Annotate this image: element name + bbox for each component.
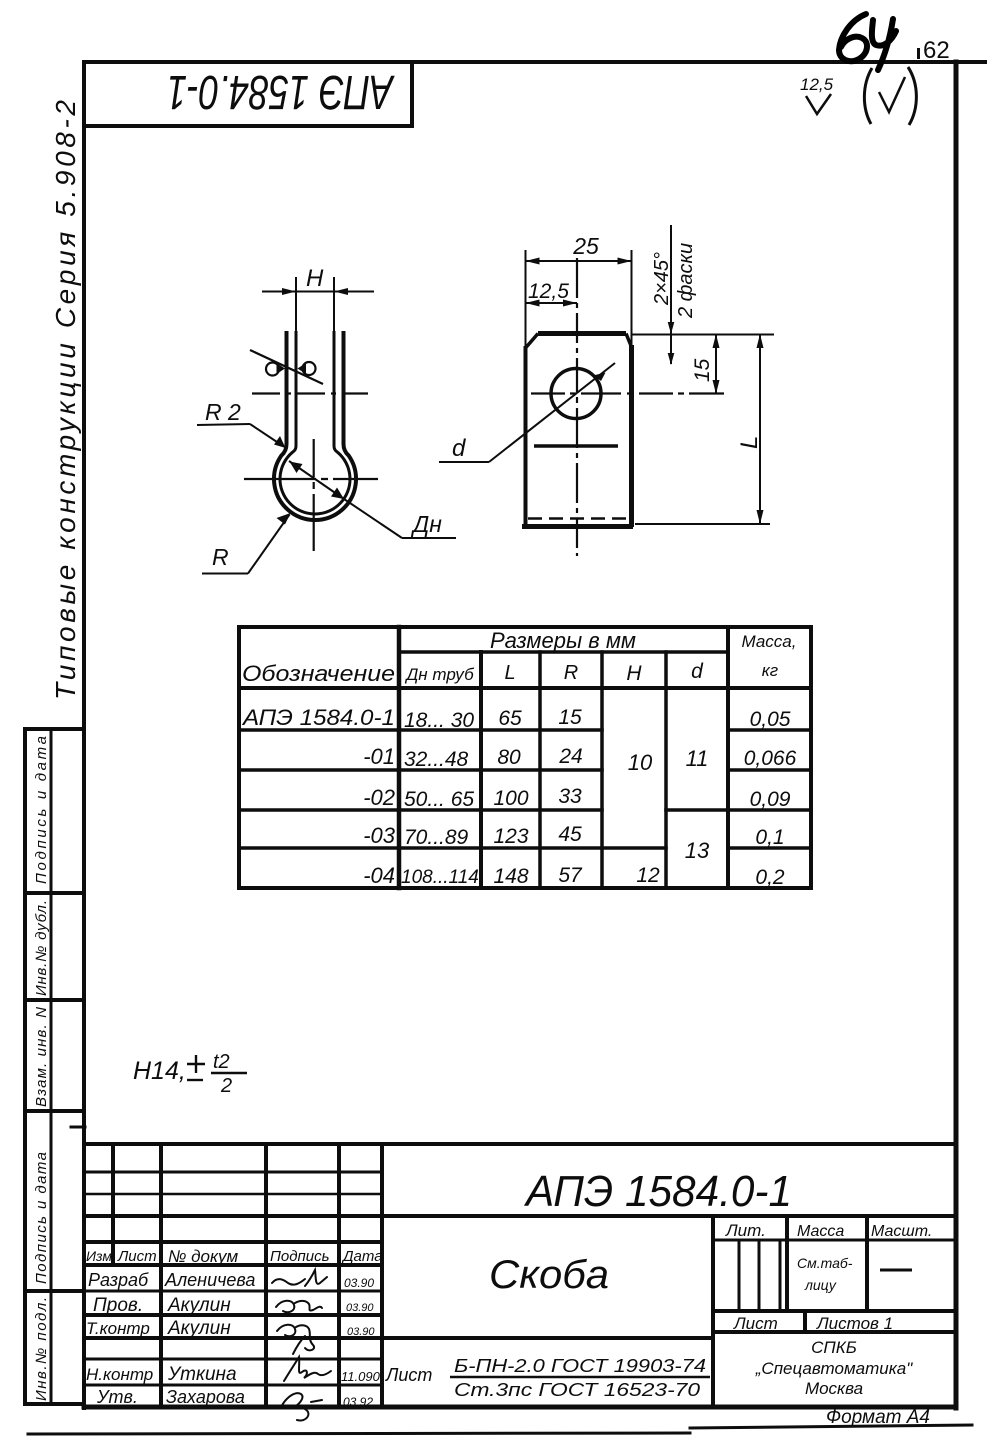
svg-text:148: 148 — [493, 865, 528, 888]
hidden bend line dashed — [528, 517, 630, 520]
dates in Data column — [341, 1276, 381, 1409]
svg-text:32...48: 32...48 — [404, 748, 469, 771]
svg-text:АПЭ 1584.0-1: АПЭ 1584.0-1 — [523, 1167, 792, 1216]
svg-text:11: 11 — [686, 746, 709, 771]
svg-text:Н14,: Н14, — [133, 1057, 186, 1085]
page number 62 — [917, 37, 950, 64]
loop vertical center line — [313, 439, 315, 551]
svg-text:15: 15 — [691, 358, 714, 382]
svg-text:R: R — [212, 544, 229, 570]
svg-text:Типовые конструкции Серия: Типовые конструкции Серия 5.908-2 — [50, 100, 81, 700]
rod diameter callout with circles — [250, 350, 323, 384]
sidebar cells — [23, 729, 27, 1404]
svg-text:R 2: R 2 — [205, 399, 241, 425]
svg-text:Пров.: Пров. — [93, 1295, 143, 1316]
svg-text:лицу: лицу — [804, 1277, 837, 1293]
svg-text:d: d — [452, 435, 466, 462]
frame bottom — [84, 1405, 956, 1410]
svg-text:АПЭ 1584.0-1: АПЭ 1584.0-1 — [241, 705, 395, 730]
svg-text:0,1: 0,1 — [755, 826, 784, 849]
leg center line — [252, 392, 368, 394]
svg-text:62: 62 — [923, 37, 950, 64]
svg-text:d: d — [691, 660, 704, 683]
plate outline — [522, 334, 633, 528]
svg-text:Масшт.: Масшт. — [871, 1223, 932, 1240]
svg-text:Взам. инв. N: Взам. инв. N — [33, 1007, 50, 1107]
svg-text:0,09: 0,09 — [750, 788, 791, 811]
frame left — [82, 62, 86, 1408]
svg-text:Лист: Лист — [117, 1248, 157, 1265]
svg-text:100: 100 — [493, 787, 528, 810]
svg-text:Размеры в мм: Размеры в мм — [490, 628, 636, 653]
top extension line — [632, 334, 774, 336]
svg-text:Подпись и дата: Подпись и дата — [33, 1152, 50, 1284]
hole horizontal center line — [531, 392, 724, 394]
svg-text:Акулин: Акулин — [167, 1318, 231, 1339]
frame tick mark — [71, 1126, 85, 1129]
right side cells — [711, 1216, 715, 1407]
svg-text:2 фаски: 2 фаски — [675, 243, 697, 319]
svg-text:L: L — [504, 662, 515, 684]
frame right — [954, 62, 959, 1408]
svg-text:24: 24 — [558, 745, 582, 768]
svg-text:Н.контр: Н.контр — [86, 1365, 153, 1384]
svg-text:-04: -04 — [363, 863, 395, 888]
svg-text:2: 2 — [220, 1075, 232, 1097]
svg-text:Утв.: Утв. — [96, 1387, 138, 1407]
svg-text:25: 25 — [572, 233, 599, 259]
svg-text:Масса: Масса — [797, 1223, 844, 1240]
svg-text:12,5: 12,5 — [800, 75, 834, 94]
svg-text:Захарова: Захарова — [166, 1387, 245, 1407]
svg-text:Подпись и дата: Подпись и дата — [33, 736, 50, 884]
svg-text:Акулин: Акулин — [167, 1295, 231, 1316]
svg-text:Уткина: Уткина — [167, 1364, 237, 1385]
loop horizontal center line — [244, 478, 378, 480]
bottom scan edge — [28, 1433, 690, 1434]
svg-text:50... 65: 50... 65 — [404, 788, 474, 811]
bend mark line — [534, 444, 618, 448]
page number 64 handwritten — [839, 14, 896, 70]
roughness mark 12,5 — [800, 75, 834, 114]
svg-text:„Спецавтоматика": „Спецавтоматика" — [755, 1359, 913, 1378]
tolerance note H14 — [133, 1051, 232, 1097]
title block grid — [84, 1144, 956, 1407]
hole vertical center line — [576, 258, 578, 556]
svg-text:Дн: Дн — [410, 511, 442, 537]
svg-text:12,5: 12,5 — [528, 280, 569, 303]
svg-text:-02: -02 — [363, 785, 395, 810]
dimension L — [759, 334, 761, 524]
title block text — [86, 1167, 932, 1428]
svg-text:03.90: 03.90 — [346, 1302, 374, 1314]
svg-text:57: 57 — [558, 864, 583, 887]
svg-text:Б-ПН-2.0 ГОСТ 19903-74: Б-ПН-2.0 ГОСТ 19903-74 — [454, 1356, 706, 1376]
svg-text:L: L — [736, 436, 763, 449]
svg-text:СПКБ: СПКБ — [811, 1338, 857, 1357]
roughness mark in parentheses — [864, 67, 916, 125]
svg-text:2×45°: 2×45° — [651, 252, 673, 306]
vertical dividers, left columns — [111, 1144, 115, 1265]
svg-text:11.090: 11.090 — [341, 1369, 381, 1384]
svg-text:Подпись: Подпись — [270, 1248, 330, 1265]
svg-text:Инв.№ дубл.: Инв.№ дубл. — [33, 900, 50, 996]
svg-text:10: 10 — [628, 750, 653, 775]
stamp text rotated 180 — [167, 65, 395, 118]
hole d — [551, 369, 601, 419]
svg-text:03.92: 03.92 — [343, 1395, 373, 1409]
bottom extension line — [635, 523, 770, 525]
svg-text:70...89: 70...89 — [404, 826, 469, 849]
svg-text:33: 33 — [558, 785, 582, 808]
svg-text:12: 12 — [636, 864, 660, 887]
svg-text:Инв.№ подл.: Инв.№ подл. — [33, 1297, 50, 1401]
svg-text:13: 13 — [685, 838, 710, 863]
svg-text:Дата: Дата — [341, 1248, 383, 1265]
clamp inner contour — [280, 331, 350, 514]
svg-text:Изм: Изм — [86, 1248, 112, 1264]
svg-text:t2: t2 — [213, 1051, 230, 1073]
frame top — [84, 60, 985, 64]
svg-text:-03: -03 — [363, 823, 396, 848]
clamp outer contour — [274, 331, 356, 520]
svg-text:№ докум: № докум — [168, 1247, 239, 1266]
dimension H — [262, 277, 374, 333]
dimension 15 — [715, 334, 717, 394]
svg-text:Масса,: Масса, — [742, 632, 797, 651]
svg-text:кг: кг — [762, 661, 778, 680]
svg-text:R: R — [564, 662, 578, 684]
svg-text:108...114: 108...114 — [401, 867, 479, 888]
svg-text:65: 65 — [498, 707, 522, 730]
svg-text:Лист: Лист — [385, 1365, 432, 1385]
svg-text:03.90: 03.90 — [344, 1276, 374, 1290]
svg-text:Аленичева: Аленичева — [164, 1270, 255, 1290]
svg-text:Дн труб: Дн труб — [404, 665, 475, 684]
svg-text:0,066: 0,066 — [744, 747, 797, 770]
svg-text:45: 45 — [558, 823, 582, 846]
left margin vertical text — [33, 100, 81, 1401]
dimension 25 — [526, 250, 632, 348]
svg-text:15: 15 — [558, 706, 582, 729]
stamp box top-left — [84, 124, 412, 128]
svg-text:Формат А4: Формат А4 — [826, 1407, 930, 1428]
svg-text:123: 123 — [493, 825, 528, 848]
svg-text:Обозначение: Обозначение — [242, 661, 395, 686]
svg-text:H: H — [306, 265, 324, 292]
svg-text:АПЭ 1584.0-1: АПЭ 1584.0-1 — [167, 65, 395, 118]
svg-text:18... 30: 18... 30 — [404, 709, 474, 732]
svg-text:80: 80 — [497, 746, 521, 769]
svg-text:Листов 1: Листов 1 — [816, 1314, 893, 1333]
svg-text:0,2: 0,2 — [755, 866, 785, 889]
dimension 12,5 — [526, 302, 578, 304]
svg-text:Ст.3пс ГОСТ 16523-70: Ст.3пс ГОСТ 16523-70 — [454, 1380, 700, 1400]
svg-text:Лист: Лист — [733, 1314, 778, 1333]
svg-text:-01: -01 — [363, 744, 395, 769]
svg-text:Т.контр: Т.контр — [86, 1319, 150, 1338]
svg-text:0,05: 0,05 — [750, 708, 791, 731]
svg-text:Скоба: Скоба — [489, 1253, 609, 1297]
svg-text:Лит.: Лит. — [725, 1221, 766, 1240]
svg-text:H: H — [626, 662, 642, 685]
svg-text:Разраб: Разраб — [88, 1270, 149, 1290]
signatures in Podpis column — [272, 1270, 331, 1420]
svg-text:Москва: Москва — [805, 1379, 863, 1398]
svg-text:См.таб-: См.таб- — [797, 1255, 853, 1271]
svg-text:03.90: 03.90 — [347, 1326, 375, 1338]
